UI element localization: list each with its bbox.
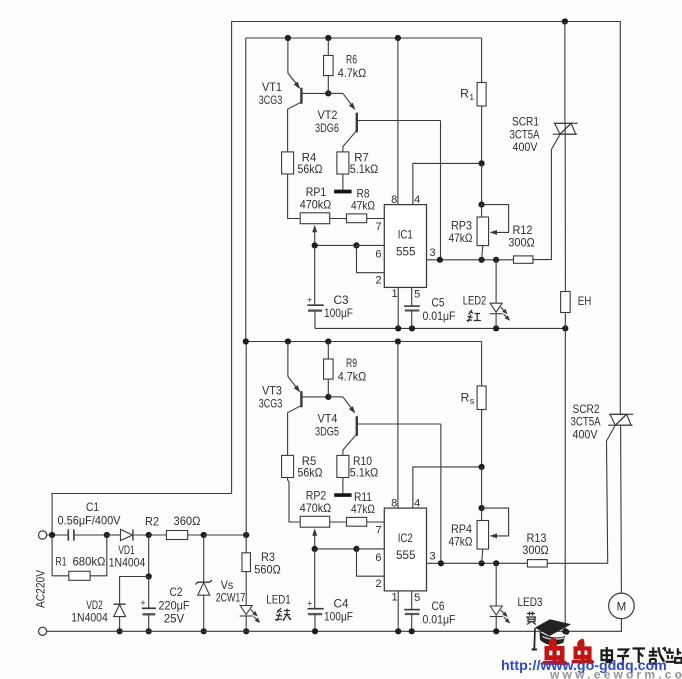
terminal: AC input top — [39, 531, 47, 539]
watermark: dianzi xiazaizhan (black site name) — [602, 647, 682, 664]
svg-text:3: 3 — [430, 551, 436, 563]
node: R6/VT1/VT2 — [325, 90, 331, 96]
svg-text:C3: C3 — [334, 293, 349, 307]
svg-text:100μF: 100μF — [324, 306, 353, 320]
svg-text:AC220V: AC220V — [34, 570, 48, 608]
svg-text:400V: 400V — [573, 427, 598, 441]
resistor R10 box — [337, 455, 349, 477]
node: C1/R1/frame junction — [49, 532, 55, 538]
svg-text:3CG3: 3CG3 — [259, 93, 283, 107]
wire: VCC rail section 1 — [246, 37, 482, 39]
wire: IC2 pin1 to bottom rail — [397, 591, 399, 631]
resistor R3 560ohm — [245, 535, 247, 553]
svg-text:R: R — [461, 391, 470, 405]
svg-text:LED2: LED2 — [463, 293, 487, 307]
svg-text:M: M — [617, 601, 627, 613]
wire: VT1 base to R6 node — [301, 92, 328, 94]
svg-text:R2: R2 — [145, 515, 159, 529]
svg-text:3CG3: 3CG3 — [259, 396, 283, 410]
svg-text:300Ω: 300Ω — [522, 543, 549, 557]
wire: pin2 branch 2 — [357, 549, 385, 576]
svg-text:360Ω: 360Ω — [174, 514, 201, 528]
node: LED3 branch — [493, 560, 499, 566]
RP2 470k box — [300, 516, 330, 527]
svg-text:5.1kΩ: 5.1kΩ — [350, 466, 379, 480]
hanzi: huang (yellow) — [526, 612, 536, 625]
svg-text:5: 5 — [414, 592, 420, 604]
svg-text:8: 8 — [391, 498, 397, 510]
diode VD1 1N4004 — [107, 534, 121, 536]
svg-text:C2: C2 — [170, 585, 183, 599]
svg-text:R1: R1 — [56, 555, 67, 569]
node: RP4 top — [479, 505, 485, 511]
svg-text:1: 1 — [392, 288, 398, 300]
resistor R6 4.7k — [327, 38, 329, 56]
svg-text:7: 7 — [376, 525, 382, 537]
capacitor C5 0.01uF — [411, 287, 413, 306]
svg-text:4: 4 — [414, 194, 420, 206]
wire: bottom AC rail — [47, 630, 565, 632]
wire: RP2 wiper node to IC2 pin6 — [315, 548, 357, 550]
R13 300ohm box — [527, 560, 547, 567]
capacitor C6 0.01uF — [411, 591, 413, 610]
node: Vs junction — [201, 532, 207, 538]
capacitor C4 100uF electrolytic — [314, 549, 316, 609]
resistor R3 box — [242, 553, 251, 572]
svg-text:4.7kΩ: 4.7kΩ — [338, 370, 367, 384]
tick bar between RP1 and R8 — [334, 190, 351, 194]
wire: VCC riser x=246 — [245, 342, 247, 536]
node: VD1 cathode / R2 / VD2-C2 branch — [146, 532, 152, 538]
svg-text:8: 8 — [391, 194, 397, 206]
svg-text:C4: C4 — [334, 596, 349, 610]
svg-text:C1: C1 — [86, 500, 99, 514]
wire: R8 to IC1 pin7 — [367, 218, 385, 220]
svg-text:C6: C6 — [432, 599, 445, 613]
svg-text:+: + — [140, 598, 145, 608]
svg-text:47kΩ: 47kΩ — [351, 199, 375, 213]
svg-text:1N4004: 1N4004 — [109, 556, 146, 570]
motor M — [609, 593, 635, 619]
wire: VD2/C2 branch — [148, 535, 150, 577]
transistor VT4 3DG5 — [328, 396, 343, 398]
EH box — [561, 292, 571, 313]
LED2 red — [495, 260, 497, 302]
svg-text:680kΩ: 680kΩ — [73, 555, 106, 569]
wire: VT4 to IC2 pin3 column — [357, 423, 441, 425]
RP1 470k box — [300, 213, 330, 224]
svg-text:220μF: 220μF — [159, 599, 190, 613]
hanzi: hong (red) — [467, 310, 482, 322]
wire: IC2 pin8 to rail2 — [397, 342, 399, 509]
capacitor C3 100uF electrolytic — [314, 245, 316, 305]
svg-text:100μF: 100μF — [324, 610, 353, 624]
wire: AC mains top line (outer frame) — [232, 22, 621, 494]
RP4 47k box — [477, 521, 489, 550]
IC1 555 box — [384, 205, 426, 288]
svg-text:LED3: LED3 — [518, 595, 543, 609]
resistor R2 360ohm — [149, 534, 167, 536]
node: main +V junction — [243, 532, 249, 538]
svg-text:2: 2 — [376, 275, 382, 287]
resistor R5 box — [282, 455, 294, 477]
transistor VT2 3DG6 — [328, 92, 343, 94]
node: LED2 branch — [493, 257, 499, 263]
node: ground/motor junction — [562, 628, 568, 634]
svg-text:3DG6: 3DG6 — [315, 121, 339, 135]
wire: RP1 wiper node to IC1 pin6 — [315, 244, 357, 246]
wire: SCR2 cathode to motor — [620, 425, 623, 593]
resistor R1 680k (parallel with C1) — [52, 535, 69, 576]
svg-text:IC2: IC2 — [398, 531, 413, 545]
svg-text:470kΩ: 470kΩ — [300, 197, 332, 211]
svg-text:4: 4 — [414, 498, 420, 510]
LED3 yellow — [495, 563, 497, 604]
wire: IC2 pin4 to Rs column — [413, 467, 482, 508]
resistor R2 box — [166, 531, 187, 540]
wire: R11 to IC2 pin7 — [367, 521, 385, 523]
wire: VCC rail section 2 — [246, 341, 482, 343]
wire: pin2 branch — [357, 245, 385, 272]
svg-text:555: 555 — [396, 548, 416, 562]
node: wiper/C3/pin6 — [312, 242, 318, 248]
wire: SCR1 cathode to EH — [564, 134, 566, 291]
zener diode Vs 2CW17 — [203, 535, 205, 582]
resistor R9 4.7k — [327, 342, 329, 360]
wire: motor bottom to ground rail — [565, 619, 621, 632]
wire: drop to output line — [440, 121, 442, 260]
wire: R12 to SCR1 gate — [533, 135, 560, 259]
svg-text:555: 555 — [396, 244, 416, 258]
svg-text:C5: C5 — [432, 295, 445, 309]
node: VT2 column joins output — [437, 257, 443, 263]
SCR2 triac symbol — [608, 414, 633, 425]
R8 47k box — [347, 214, 367, 223]
wire: IC1 pin3 output line — [427, 259, 514, 261]
R12 300ohm box — [514, 256, 533, 263]
SCR1 triac symbol — [553, 123, 578, 134]
svg-text:4.7kΩ: 4.7kΩ — [338, 66, 367, 80]
RP3 47k box — [477, 217, 489, 246]
svg-text:56kΩ: 56kΩ — [298, 466, 323, 480]
node: riser/rail2 — [243, 338, 249, 344]
LED2 symbol — [490, 302, 510, 320]
svg-text:R: R — [460, 87, 469, 101]
svg-text:3: 3 — [430, 247, 436, 259]
R11 47k box — [347, 517, 367, 526]
svg-text:6: 6 — [375, 552, 381, 564]
svg-text:1: 1 — [392, 592, 398, 604]
node: wiper/C4/pin6 — [312, 546, 318, 552]
resistor R1 680k box — [69, 571, 90, 580]
svg-text:R6: R6 — [346, 53, 357, 67]
wire: AC top feed — [47, 534, 69, 536]
transistor VT1 3CG3 (PNP) — [287, 38, 289, 73]
svg-text:47kΩ: 47kΩ — [449, 231, 473, 245]
svg-text:0.01μF: 0.01μF — [423, 309, 456, 323]
resistor R6 box — [324, 56, 334, 76]
node: pin2 branch — [353, 242, 359, 248]
wire: VT2 to IC1 pin3 column — [357, 120, 441, 122]
wire: IC2 pin3 output line — [427, 562, 528, 564]
terminal bar of R7 — [334, 190, 351, 193]
node: VT4 column joins output — [438, 560, 444, 566]
svg-text:400V: 400V — [513, 140, 538, 154]
svg-text:3DG5: 3DG5 — [315, 424, 339, 438]
svg-text:47kΩ: 47kΩ — [449, 534, 473, 548]
wire: IC1 pin4 to R1 column — [413, 163, 482, 204]
svg-text:0.01μF: 0.01μF — [423, 613, 456, 627]
svg-text:2CW17: 2CW17 — [216, 591, 246, 605]
svg-text:300Ω: 300Ω — [508, 235, 535, 249]
svg-text:0.56μF/400V: 0.56μF/400V — [58, 514, 121, 528]
resistor Rs box — [477, 386, 486, 410]
svg-text:5.1kΩ: 5.1kΩ — [350, 162, 379, 176]
node: SCR1 anode junction on top line — [562, 18, 568, 24]
wire: to VCC node — [204, 534, 247, 536]
svg-text:LED1: LED1 — [266, 593, 291, 607]
node: RP4 bottom — [479, 560, 485, 566]
svg-text:470kΩ: 470kΩ — [300, 501, 332, 515]
svg-text:1N4004: 1N4004 — [71, 611, 108, 625]
wire: section1 ground rail — [315, 327, 565, 329]
resistor R1 (top right) — [481, 38, 483, 83]
wire: R13 to SCR2 gate — [547, 426, 615, 563]
terminal: AC input bottom — [39, 627, 47, 635]
capacitor C1 0.56uF/400V — [67, 529, 69, 540]
wire: SCR1 anode from top line — [564, 22, 566, 124]
svg-text:25V: 25V — [164, 612, 185, 626]
svg-text:5: 5 — [414, 289, 420, 301]
watermark: chongchong red characters — [545, 640, 566, 664]
svg-text:R9: R9 — [346, 356, 357, 370]
svg-text:IC1: IC1 — [398, 228, 413, 242]
svg-text:560Ω: 560Ω — [254, 563, 281, 577]
svg-text:6: 6 — [375, 248, 381, 260]
resistor Rs — [481, 342, 483, 387]
IC2 555 box — [384, 508, 426, 591]
svg-text:www.eeworm.com: www.eeworm.com — [549, 668, 682, 679]
svg-text:47kΩ: 47kΩ — [351, 502, 375, 516]
transistor VT3 3CG3 — [287, 342, 289, 377]
svg-text:EH: EH — [578, 294, 592, 308]
watermark: graduation cap — [532, 619, 572, 654]
wire: ground return right side — [564, 328, 566, 631]
resistor R1 box — [477, 83, 486, 107]
svg-text:1: 1 — [469, 92, 474, 102]
node: RP3 top — [479, 202, 485, 208]
node: RP3 bottom — [479, 257, 485, 263]
node: pin2 branch 2 — [353, 546, 359, 552]
node: R9/VT3/VT4 — [325, 394, 331, 400]
svg-text:+: + — [307, 599, 312, 609]
wire: frame to AC terminal 1 — [52, 494, 232, 536]
capacitor C2 220uF electrolytic — [148, 577, 150, 609]
resistor R7 box — [337, 152, 349, 174]
resistor R9 box — [324, 359, 334, 379]
wire: IC1 pin8 to VCC rail — [397, 38, 399, 205]
svg-text:2: 2 — [376, 578, 382, 590]
resistor R4 box — [282, 152, 294, 174]
diode VD2 1N4004 — [114, 603, 126, 605]
svg-text:s: s — [470, 396, 475, 406]
svg-text:7: 7 — [376, 221, 382, 233]
wire: IC1 pin1 to ground rail — [397, 287, 399, 328]
wire: drop to output line 2 — [440, 424, 442, 563]
hanzi: lv (green) — [275, 608, 291, 621]
svg-text:+: + — [307, 295, 312, 305]
LED3 symbol — [490, 605, 510, 623]
wire: C1 to VD1 — [74, 534, 107, 536]
svg-text:56kΩ: 56kΩ — [298, 162, 323, 176]
LED1 green indicator — [240, 604, 260, 622]
terminal bar of R10 — [334, 493, 351, 497]
